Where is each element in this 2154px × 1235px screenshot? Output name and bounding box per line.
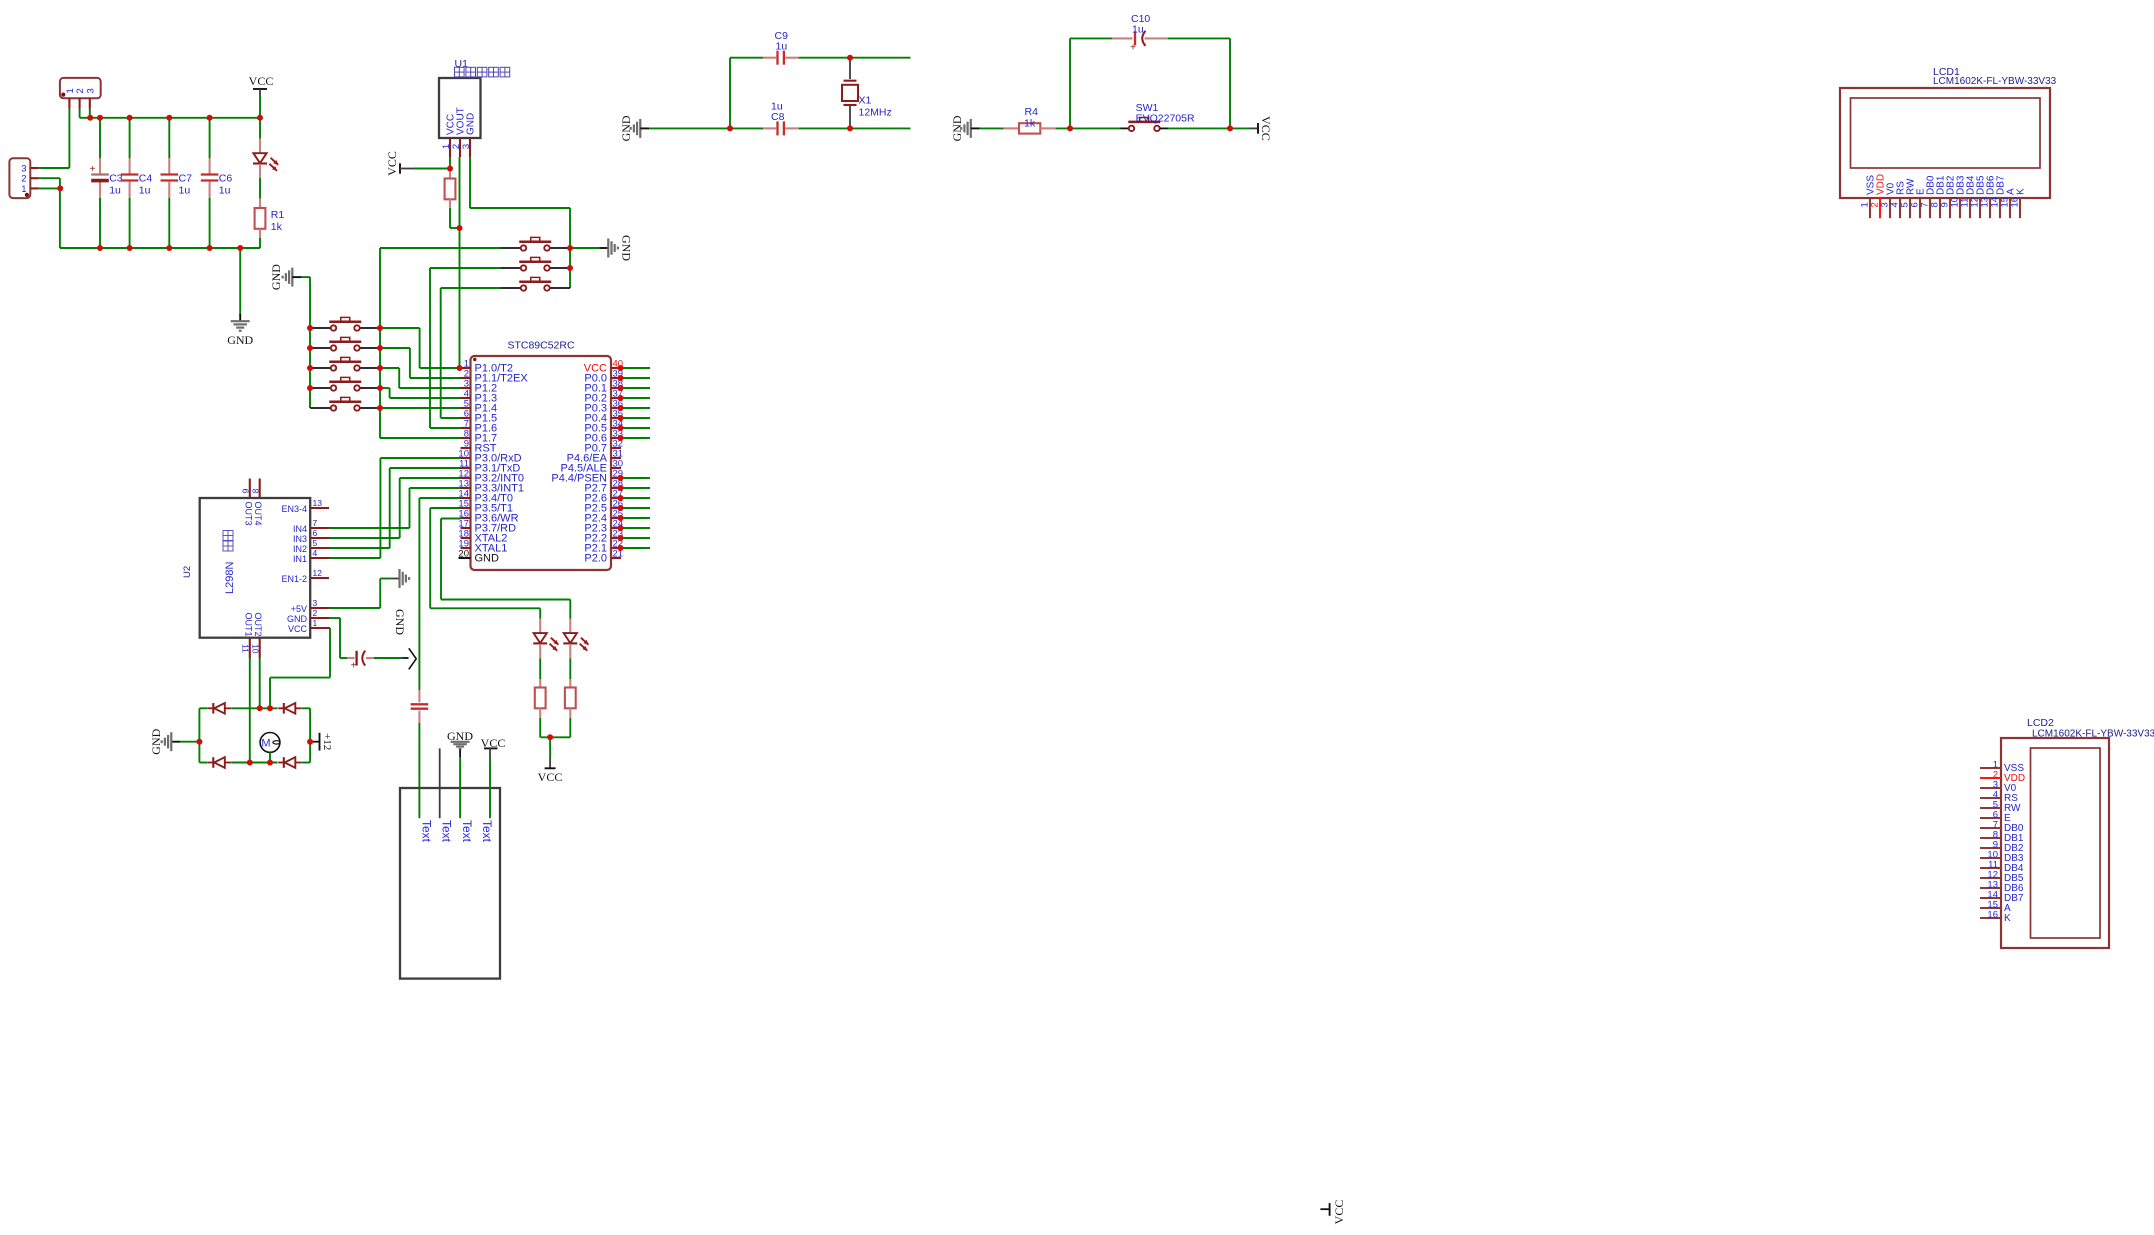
svg-text:LCM1602K-FL-YBW-33V33: LCM1602K-FL-YBW-33V33 — [1933, 76, 2057, 87]
svg-text:1u: 1u — [219, 185, 231, 197]
svg-text:GND: GND — [465, 113, 476, 135]
svg-text:L298N: L298N — [224, 562, 236, 594]
svg-text:4: 4 — [313, 548, 318, 558]
svg-text:VCC: VCC — [1332, 1200, 1346, 1225]
svg-text:R4: R4 — [1025, 106, 1039, 118]
svg-text:GND: GND — [149, 728, 163, 754]
svg-text:2: 2 — [313, 608, 318, 618]
svg-text:U2: U2 — [182, 566, 193, 578]
svg-text:1: 1 — [313, 618, 318, 628]
svg-text:8: 8 — [251, 488, 261, 493]
svg-text:1u: 1u — [179, 185, 191, 197]
svg-text:VCC: VCC — [538, 770, 563, 784]
svg-text:+5V: +5V — [291, 604, 307, 614]
svg-text:1k: 1k — [271, 221, 283, 233]
svg-text:GND: GND — [475, 553, 500, 565]
svg-text:GND: GND — [227, 333, 253, 347]
svg-text:Text: Text — [460, 820, 474, 843]
svg-text:IN1: IN1 — [293, 554, 307, 564]
svg-text:5: 5 — [313, 538, 318, 548]
svg-text:Text: Text — [480, 820, 494, 843]
svg-text:STC89C52RC: STC89C52RC — [507, 340, 575, 352]
svg-text:IN2: IN2 — [293, 544, 307, 554]
svg-text:OUT1: OUT1 — [243, 613, 253, 637]
svg-text:1u: 1u — [1132, 24, 1144, 36]
svg-text:VCC: VCC — [385, 151, 399, 176]
svg-text:VCC: VCC — [249, 74, 274, 88]
svg-text:6: 6 — [313, 528, 318, 538]
svg-text:C3: C3 — [109, 173, 123, 185]
svg-text:7: 7 — [313, 518, 318, 528]
svg-text:OUT2: OUT2 — [253, 613, 263, 637]
svg-text:M: M — [261, 738, 270, 750]
svg-text:3: 3 — [85, 88, 96, 93]
svg-text:VCC: VCC — [481, 736, 506, 750]
svg-text:C6: C6 — [219, 173, 233, 185]
svg-text:+: + — [90, 164, 96, 175]
svg-text:1u: 1u — [109, 185, 121, 197]
svg-text:GND: GND — [620, 235, 634, 261]
svg-text:C8: C8 — [771, 111, 785, 123]
svg-text:EN1-2: EN1-2 — [281, 574, 307, 584]
svg-text:16: 16 — [1987, 910, 1998, 921]
svg-text:Text: Text — [420, 820, 434, 843]
svg-text:P2.0: P2.0 — [584, 553, 607, 565]
svg-text:C4: C4 — [139, 173, 153, 185]
svg-text:EN3-4: EN3-4 — [281, 504, 307, 514]
svg-text:GND: GND — [287, 614, 308, 624]
svg-text:GND: GND — [269, 264, 283, 290]
svg-text:OUT4: OUT4 — [253, 502, 263, 526]
svg-text:C7: C7 — [179, 173, 193, 185]
svg-text:3: 3 — [313, 598, 318, 608]
svg-text:10: 10 — [250, 644, 260, 654]
svg-text:EVQ22705R: EVQ22705R — [1136, 112, 1195, 124]
svg-text:IN3: IN3 — [293, 534, 307, 544]
svg-text:1u: 1u — [776, 41, 788, 53]
svg-text:1u: 1u — [139, 185, 151, 197]
svg-text:VCC: VCC — [288, 624, 308, 634]
svg-text:OUT3: OUT3 — [243, 502, 253, 526]
svg-text:IN4: IN4 — [293, 524, 307, 534]
svg-text:9: 9 — [241, 488, 251, 493]
svg-text:K: K — [2004, 913, 2011, 924]
svg-text:GND: GND — [393, 609, 407, 635]
svg-text:11: 11 — [240, 644, 250, 653]
svg-text:16: 16 — [2010, 197, 2021, 208]
svg-text:R1: R1 — [271, 209, 285, 221]
svg-text:Text: Text — [440, 820, 454, 843]
svg-text:+12: +12 — [321, 733, 333, 750]
svg-text:20: 20 — [458, 549, 469, 560]
svg-text:VCC: VCC — [1259, 116, 1273, 141]
svg-text:LCD2: LCD2 — [2027, 717, 2054, 729]
svg-text:X1: X1 — [859, 95, 872, 107]
svg-text:LCM1602K-FL-YBW-33V33: LCM1602K-FL-YBW-33V33 — [2032, 729, 2154, 740]
svg-text:3: 3 — [461, 144, 472, 149]
svg-text:+: + — [1130, 43, 1136, 54]
svg-text:12MHz: 12MHz — [859, 107, 892, 119]
svg-text:K: K — [2016, 188, 2027, 195]
svg-text:+: + — [351, 661, 357, 672]
svg-text:1k: 1k — [1024, 117, 1036, 129]
svg-text:13: 13 — [313, 498, 323, 508]
svg-text:12: 12 — [313, 568, 323, 578]
